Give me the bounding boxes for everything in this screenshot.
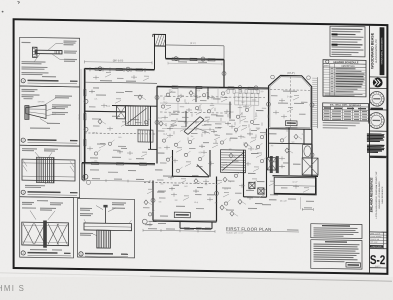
title block dividers [370, 77, 387, 268]
engineer seal 2 [368, 112, 384, 128]
detail 4: bottom annotation [30, 249, 62, 251]
detail 3: vertical hatch block [37, 157, 55, 183]
detail 5: annotation text [80, 202, 126, 217]
plan: dim line below dining bay [143, 223, 215, 233]
plan: breakfast octagon outer wall [269, 75, 312, 129]
plan: main stair right treads [221, 150, 246, 173]
plan: bottom bay protrusion [180, 221, 212, 229]
detail 5: left annotation [80, 233, 97, 236]
plan: main stairwell treads [126, 106, 149, 126]
detail 4: joist band with cross bridging [22, 222, 69, 246]
plan: scattered framing symbols [89, 87, 302, 218]
plan: dining left wall [152, 181, 154, 221]
detail 1: annotation text right [64, 40, 78, 61]
plan: great room top wall tick marks [90, 67, 145, 72]
detail 1: leader lines [34, 43, 64, 62]
plan: great room top wall [85, 69, 155, 71]
scan noise overlay [0, 0, 1, 1]
plan: master suite bottom wall [273, 175, 319, 178]
detail 4 title with number bubble [21, 251, 71, 256]
detail box 2 outline (beam detail) [20, 86, 80, 146]
detail 1 title with number bubble [21, 79, 77, 84]
plan: rear deck outline [166, 42, 225, 59]
plan: kitchen dashed lines [160, 96, 265, 114]
plan: dim line below wing [84, 178, 150, 183]
detail box 4 outline (joist attachment at bearing wall) [20, 197, 74, 258]
plan: great room left exterior wall [85, 69, 86, 181]
detail 3: joist band [22, 159, 75, 181]
detail 2: leader text right [30, 95, 72, 129]
design notes box bottom right [311, 240, 362, 269]
plan: extra annotation noise [87, 72, 309, 229]
header schedule table [323, 60, 366, 97]
plan: reference bubble left wall [83, 174, 90, 184]
detail 2 title with number bubble [21, 138, 77, 143]
plan: right section below octagon walls [269, 127, 312, 176]
plan: foyer partition stubs [186, 87, 230, 128]
plan: left vertical dim line [79, 69, 81, 162]
plan: great room dashed ceiling line [85, 133, 158, 134]
plan: pantry room walls [244, 128, 267, 197]
revision table rows [370, 232, 387, 249]
paper bottom edge shadow [0, 273, 392, 281]
steel wall control schedule table [323, 103, 369, 121]
notes below steel schedule [323, 122, 360, 129]
plan: pantry dark squares [249, 182, 264, 194]
detail 5: beam band [84, 219, 132, 230]
detail 1: anchor bolt shaft with threads [35, 49, 62, 55]
plan: wing bottom wall with window ticks [82, 162, 155, 166]
plan: family room left wall [156, 86, 158, 163]
plan: dim line above great room [85, 58, 153, 64]
plan: bath top wall right section [269, 142, 312, 145]
plan: octagon dim text above [271, 72, 311, 79]
plan: scattered tiny dimension texts [93, 88, 304, 205]
detail 1: hatched wall block [33, 47, 38, 57]
detail 2: tapered beam wedge [24, 98, 47, 120]
plan: kitchen extra ticks [164, 97, 268, 146]
detail 4: center post dark [43, 220, 47, 247]
detail 3: end hatching [23, 160, 74, 172]
detail 2: annotation text top [22, 89, 40, 98]
plan: kitchen interior thin lines [158, 86, 254, 130]
plan: kitchen rear wall with windows [157, 86, 269, 90]
firm name WOODWARD BEASE vertical text [370, 32, 378, 69]
plan: family room rear wall [166, 58, 225, 61]
plan: octagon label box [286, 121, 298, 128]
firm address block 1 [367, 133, 385, 142]
plan: wing and dining wall annotations [90, 91, 314, 218]
plan: dim row inside rear rooms [168, 61, 222, 65]
general notes box top right [330, 26, 365, 57]
plan: dim marks bottom right [280, 197, 313, 211]
plan: kitchen island diagonal [184, 116, 210, 134]
detail 5: threaded rod and bolt [96, 205, 116, 224]
plan: wall window ticks great room [84, 68, 143, 147]
detail box 1 outline (anchor bolt detail) [20, 37, 80, 87]
structural engineers inverse bar [380, 27, 385, 75]
plan: lower stair run [138, 130, 153, 142]
detail 5: hatched post [97, 230, 111, 248]
project title ERLAND RESIDENCE vertical [370, 171, 385, 218]
plan: closet box with X [267, 158, 276, 170]
plan: wall step chimney to kitchen [223, 59, 225, 88]
firm address block 2 [367, 145, 385, 153]
plan: stair closet with X [117, 106, 126, 119]
firm logo W in circle [373, 78, 383, 88]
detail 3 title with number bubble [21, 190, 77, 195]
plan: dining dashed line [144, 182, 216, 183]
plan: terrace bottom wall [274, 176, 316, 194]
plan: great room beam line [85, 80, 158, 83]
plan: great room mid wall [85, 110, 126, 113]
plan: chimney sides down to wall [155, 46, 166, 70]
plan: window sill rects below kitchen wall [227, 89, 259, 94]
engineer seal 1 [370, 91, 385, 106]
detail 3: annotation text top [22, 148, 58, 158]
plan: FIRST FLOOR PLAN title [226, 226, 299, 235]
project bar divider [370, 156, 387, 158]
plan: dining label box [174, 212, 190, 218]
plan: master bath tub [303, 145, 313, 158]
detail box 5 outline (beam bearing at post) [78, 199, 135, 258]
plan: rear terrace band [274, 177, 316, 195]
sheet number S-2 [370, 252, 386, 268]
title block strip outline [369, 25, 371, 273]
plan: leader bubbles on walls [84, 55, 314, 205]
svg-text:HMI S: HMI S [0, 284, 25, 293]
detail 4: annotation text top [22, 200, 63, 220]
plan: chimney with hatch [153, 34, 166, 46]
plan: dining right wall [216, 177, 218, 222]
detail 3: bottom annotation [25, 180, 50, 188]
plan: closet shelf bars [270, 156, 279, 173]
live load requirements notes box [311, 224, 362, 239]
plan: shower box with X [302, 158, 318, 175]
plan: dining bottom wall [153, 220, 217, 222]
plan: wing lower left step [82, 163, 85, 181]
plan: stair hall right wall [112, 106, 157, 150]
plan: kitchen cabinet grid [235, 93, 259, 105]
detail box 3 outline (joist attachment) [20, 145, 80, 197]
plan: hall walls [172, 149, 211, 176]
scan speck top-left [2, 2, 20, 13]
detail 5 title with number bubble [79, 252, 128, 257]
scanner text HMI S bottom left [0, 284, 25, 293]
plan: deck boards right of octagon [312, 77, 317, 128]
seal 1 label bar [371, 108, 384, 110]
plan: octagon interior dims [270, 76, 310, 128]
detail reference bubble right of box 5 [142, 219, 156, 224]
detail 1: annotation text left [22, 42, 57, 78]
